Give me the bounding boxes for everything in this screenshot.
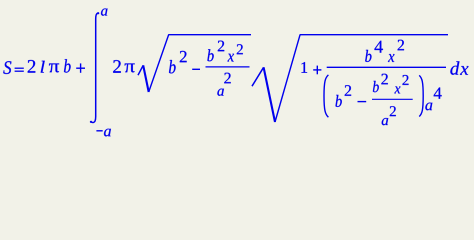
inner numerator b exponent 2 (381, 74, 387, 85)
integral upper limit a (101, 9, 108, 16)
integral sign (91, 13, 98, 122)
differential d (450, 61, 459, 74)
sqrt2 numerator x (388, 54, 395, 62)
sqrt2 numerator b exponent 4 (375, 41, 383, 53)
integrand coefficient 2 (113, 60, 121, 73)
integral lower limit minus sign (96, 130, 102, 132)
inner denominator a (382, 118, 389, 125)
minus sign inside inner fraction (358, 101, 367, 103)
first radical sign (138, 65, 143, 75)
sqrt2 denominator a exponent 4 (434, 88, 442, 99)
sqrt1 denominator a (217, 89, 224, 96)
sqrt2 denominator b exponent 2 (345, 85, 351, 96)
pi symbol (49, 64, 59, 73)
constant 1 (302, 62, 308, 73)
worksheet background (0, 0, 474, 140)
plus sign inside second radical (313, 69, 321, 71)
differential x (460, 66, 469, 75)
variable l (41, 61, 45, 73)
sqrt1 numerator b (207, 49, 213, 61)
minus sign inside first radical (192, 68, 200, 70)
variable b (64, 59, 71, 72)
integral lower limit a (104, 129, 111, 137)
opening parenthesis (324, 75, 328, 117)
coefficient 2 (28, 60, 36, 73)
sqrt1 exponent 2 (180, 51, 187, 62)
inner denominator a exponent 2 (390, 106, 396, 116)
sqrt2 denominator a (425, 103, 432, 111)
inner fraction bar (372, 98, 413, 100)
inner numerator x exponent 2 (403, 75, 409, 85)
closing parenthesis (419, 75, 423, 116)
equals sign (15, 67, 24, 69)
inner numerator x (394, 87, 400, 94)
sqrt2 numerator x exponent 2 (398, 40, 404, 51)
sqrt1 numerator x (228, 54, 235, 62)
sqrt1 denominator a exponent 2 (224, 73, 230, 84)
sqrt1 numerator b exponent 2 (218, 41, 224, 52)
second radical main fraction bar (327, 66, 446, 68)
sqrt1 base b (169, 60, 176, 73)
second radical sign (252, 67, 264, 86)
inner numerator b (373, 81, 379, 92)
variable S (3, 61, 11, 74)
first radical fraction bar (206, 66, 250, 68)
sqrt2 denominator b (336, 95, 342, 107)
integrand pi symbol (125, 64, 135, 73)
sqrt1 numerator x exponent 2 (237, 44, 243, 54)
plus sign (76, 67, 85, 69)
sqrt2 numerator b (365, 50, 371, 62)
